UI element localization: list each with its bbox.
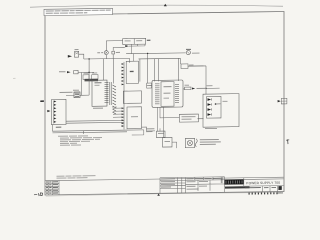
svg-text:POWER SUPPLY 700: POWER SUPPLY 700 xyxy=(246,181,280,185)
